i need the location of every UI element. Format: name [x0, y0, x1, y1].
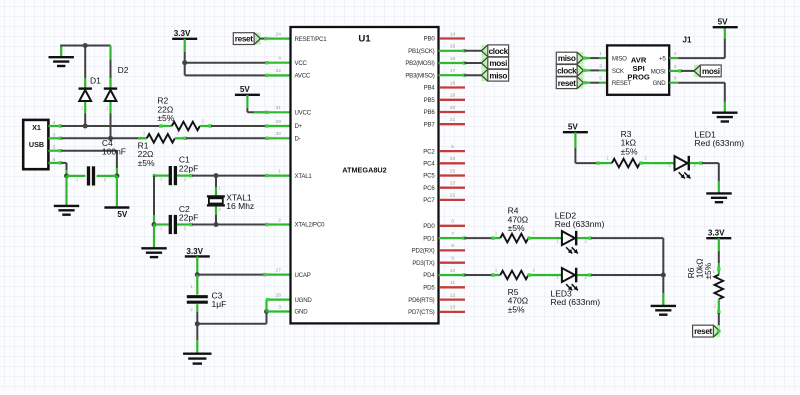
svg-text:29: 29 — [276, 119, 282, 125]
svg-text:1: 1 — [495, 230, 498, 235]
svg-text:2: 2 — [104, 177, 107, 182]
svg-text:7: 7 — [451, 231, 454, 237]
svg-text:PB6: PB6 — [424, 109, 436, 116]
svg-text:1: 1 — [278, 168, 281, 174]
svg-text:D1: D1 — [90, 76, 101, 86]
svg-text:PB4: PB4 — [424, 85, 436, 92]
svg-text:PD0: PD0 — [423, 223, 435, 230]
svg-text:±5%: ±5% — [508, 304, 525, 314]
svg-text:X1: X1 — [32, 123, 41, 132]
svg-text:USB: USB — [29, 140, 44, 149]
svg-text:reset: reset — [558, 79, 576, 88]
svg-text:PD4: PD4 — [423, 272, 435, 279]
svg-text:reset: reset — [235, 35, 253, 44]
svg-text:mosi: mosi — [702, 67, 720, 76]
svg-text:PB5: PB5 — [424, 97, 436, 104]
svg-text:MISO: MISO — [612, 56, 627, 63]
svg-text:SCK: SCK — [612, 68, 624, 75]
svg-text:±5%: ±5% — [157, 113, 174, 123]
svg-text:1: 1 — [713, 269, 716, 274]
svg-text:5V: 5V — [568, 123, 579, 132]
svg-text:UCAP: UCAP — [295, 272, 311, 279]
svg-text:PD1: PD1 — [423, 235, 435, 242]
svg-text:2: 2 — [532, 230, 535, 235]
svg-text:1: 1 — [218, 186, 221, 191]
svg-text:22pF: 22pF — [179, 163, 198, 173]
svg-text:D+: D+ — [295, 123, 303, 130]
svg-text:1: 1 — [599, 51, 602, 57]
svg-text:24: 24 — [276, 31, 282, 37]
svg-text:32: 32 — [276, 68, 282, 74]
svg-text:reset: reset — [694, 327, 712, 336]
svg-text:±5%: ±5% — [703, 262, 713, 279]
svg-text:3: 3 — [53, 132, 56, 138]
svg-text:ATMEGA8U2: ATMEGA8U2 — [342, 166, 386, 175]
svg-text:XTAL1: XTAL1 — [295, 173, 313, 180]
svg-text:3.3V: 3.3V — [708, 229, 725, 238]
svg-text:23: 23 — [450, 181, 456, 187]
svg-text:30: 30 — [276, 131, 282, 137]
svg-text:2: 2 — [584, 238, 587, 243]
svg-text:5: 5 — [451, 144, 454, 150]
svg-text:2: 2 — [190, 307, 193, 312]
svg-text:5: 5 — [599, 76, 602, 82]
svg-text:2: 2 — [201, 118, 204, 123]
svg-text:PC4: PC4 — [423, 161, 435, 168]
svg-text:2: 2 — [184, 226, 187, 231]
svg-text:3.3V: 3.3V — [186, 247, 203, 256]
svg-text:3: 3 — [599, 63, 602, 69]
svg-text:clock: clock — [557, 67, 577, 76]
svg-text:RESET/PC1: RESET/PC1 — [295, 36, 328, 43]
svg-text:1: 1 — [668, 163, 671, 168]
svg-text:5: 5 — [53, 145, 56, 151]
svg-text:18: 18 — [450, 80, 456, 86]
svg-text:27: 27 — [276, 267, 282, 273]
svg-text:5V: 5V — [117, 210, 128, 219]
svg-text:16: 16 — [450, 56, 456, 62]
svg-text:MOSI: MOSI — [651, 68, 666, 75]
svg-text:1: 1 — [495, 267, 498, 272]
svg-text:J1: J1 — [683, 35, 692, 44]
svg-text:PD7(CTS): PD7(CTS) — [408, 309, 435, 316]
svg-text:PD6(RTS): PD6(RTS) — [408, 297, 434, 304]
svg-text:5V: 5V — [718, 18, 729, 27]
svg-text:19: 19 — [450, 93, 456, 99]
svg-text:1: 1 — [556, 275, 559, 280]
svg-text:1: 1 — [160, 226, 163, 231]
svg-text:17: 17 — [450, 68, 456, 74]
svg-text:25: 25 — [450, 168, 456, 174]
svg-text:D2: D2 — [118, 65, 129, 75]
svg-text:9: 9 — [451, 256, 454, 262]
svg-text:PC6: PC6 — [423, 185, 435, 192]
svg-text:21: 21 — [450, 117, 456, 123]
svg-text:+5: +5 — [659, 56, 666, 63]
svg-text:6: 6 — [674, 76, 677, 82]
svg-text:3: 3 — [278, 304, 281, 310]
svg-text:13: 13 — [450, 305, 456, 311]
svg-text:PD3(TX): PD3(TX) — [412, 260, 434, 267]
svg-text:28: 28 — [276, 292, 282, 298]
svg-text:AVCC: AVCC — [295, 73, 311, 80]
svg-text:Red (633nm): Red (633nm) — [555, 219, 605, 229]
svg-text:UVCC: UVCC — [295, 110, 312, 117]
svg-text:3.3V: 3.3V — [174, 29, 191, 38]
svg-text:PROG: PROG — [627, 72, 649, 81]
svg-text:5V: 5V — [240, 85, 251, 94]
svg-text:2: 2 — [218, 207, 221, 212]
svg-text:16 Mhz: 16 Mhz — [226, 201, 254, 211]
svg-text:±5%: ±5% — [138, 158, 155, 168]
svg-text:1: 1 — [76, 177, 79, 182]
svg-text:PB1(SCK): PB1(SCK) — [408, 48, 435, 55]
svg-text:PB7: PB7 — [424, 122, 436, 129]
svg-text:2: 2 — [584, 275, 587, 280]
svg-text:26: 26 — [450, 156, 456, 162]
svg-text:miso: miso — [558, 54, 576, 63]
svg-text:1: 1 — [81, 106, 84, 111]
svg-text:PC7: PC7 — [423, 197, 435, 204]
svg-text:2: 2 — [644, 155, 647, 160]
svg-text:20: 20 — [450, 105, 456, 111]
svg-text:PC5: PC5 — [423, 173, 435, 180]
svg-text:8: 8 — [451, 243, 454, 249]
svg-text:PD5: PD5 — [423, 285, 435, 292]
svg-text:6: 6 — [53, 157, 56, 163]
svg-text:100nF: 100nF — [102, 146, 126, 156]
svg-text:11: 11 — [450, 280, 455, 286]
svg-text:2: 2 — [278, 217, 281, 223]
svg-text:PD2(RX): PD2(RX) — [412, 248, 435, 255]
svg-text:1: 1 — [160, 177, 163, 182]
svg-text:Red (633nm): Red (633nm) — [695, 138, 745, 148]
svg-text:PB3(MISO): PB3(MISO) — [405, 73, 434, 80]
svg-text:GND: GND — [653, 80, 667, 87]
svg-text:±5%: ±5% — [621, 146, 638, 156]
svg-text:1μF: 1μF — [212, 299, 227, 309]
svg-text:GND: GND — [295, 309, 309, 316]
svg-text:12: 12 — [450, 292, 456, 298]
svg-text:PB2(MOSI): PB2(MOSI) — [405, 60, 434, 67]
svg-text:XTAL2/PC0: XTAL2/PC0 — [295, 222, 326, 229]
svg-text:1: 1 — [606, 155, 609, 160]
svg-text:22pF: 22pF — [179, 213, 198, 223]
svg-text:2: 2 — [713, 303, 716, 308]
svg-text:1: 1 — [190, 284, 193, 289]
svg-text:clock: clock — [489, 47, 509, 56]
svg-text:PC2: PC2 — [423, 148, 435, 155]
svg-text:2: 2 — [674, 51, 677, 57]
svg-text:VCC: VCC — [295, 60, 308, 67]
svg-text:2: 2 — [532, 267, 535, 272]
svg-text:10: 10 — [450, 268, 456, 274]
svg-text:D-: D- — [295, 136, 301, 143]
svg-text:Red (633nm): Red (633nm) — [551, 297, 601, 307]
svg-text:U1: U1 — [358, 33, 371, 44]
svg-text:1: 1 — [556, 238, 559, 243]
svg-text:2: 2 — [184, 177, 187, 182]
svg-text:miso: miso — [489, 71, 507, 80]
svg-text:4: 4 — [53, 120, 56, 126]
svg-text:1: 1 — [143, 131, 146, 136]
svg-text:4: 4 — [674, 64, 677, 70]
svg-text:4: 4 — [278, 56, 281, 62]
svg-text:6: 6 — [451, 219, 454, 225]
svg-text:22: 22 — [450, 193, 456, 199]
svg-text:15: 15 — [450, 44, 456, 50]
svg-text:UGND: UGND — [295, 297, 313, 304]
svg-text:1: 1 — [106, 106, 109, 111]
svg-text:14: 14 — [450, 31, 456, 37]
svg-text:31: 31 — [276, 105, 282, 111]
svg-text:2: 2 — [176, 131, 179, 136]
svg-text:PB0: PB0 — [424, 36, 436, 43]
svg-text:±5%: ±5% — [508, 223, 525, 233]
svg-text:mosi: mosi — [489, 59, 507, 68]
